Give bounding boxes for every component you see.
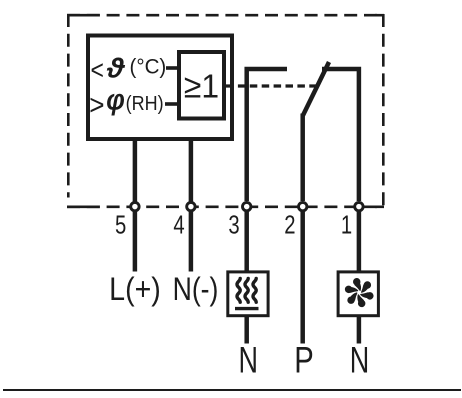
fan M1 box — [338, 272, 378, 316]
wire terminal 3 up to fixed contact — [247, 69, 287, 201]
terminal 3 — [243, 202, 251, 210]
heater wavy element 3 — [253, 278, 256, 302]
wire terminal 1 up and over to switch contact — [322, 69, 359, 201]
heater base bar — [235, 307, 259, 310]
terminal 2 — [299, 202, 307, 210]
svg-text:ϑ: ϑ — [106, 53, 126, 84]
svg-text:≥1: ≥1 — [184, 67, 219, 105]
svg-text:>: > — [89, 88, 104, 121]
wire below fan — [357, 316, 362, 344]
svg-text:4: 4 — [173, 210, 184, 239]
wire below terminal 1 to fan — [357, 212, 362, 272]
enclosure dashed outline — [67, 14, 384, 207]
svg-text:(°C): (°C) — [130, 55, 167, 78]
svg-text:3: 3 — [228, 210, 239, 239]
svg-text:5: 5 — [115, 210, 126, 239]
switch lever (relay contact) — [303, 62, 329, 116]
wire from device box to terminal 4 — [189, 141, 194, 202]
wire from device box to terminal 5 — [133, 141, 138, 202]
svg-text:<: < — [91, 55, 104, 85]
wire below terminal 5 — [133, 212, 138, 272]
wire below terminal 4 — [189, 212, 194, 272]
wire terminal 2 up to lever pivot — [300, 114, 305, 202]
wire below terminal 2 — [300, 212, 305, 344]
humidity input label > φ (RH) — [89, 82, 163, 121]
svg-text:(RH): (RH) — [126, 93, 164, 115]
heater wavy element 2 — [245, 278, 248, 302]
terminal 5 — [131, 202, 139, 210]
heater wavy element 1 — [237, 278, 240, 302]
svg-text:2: 2 — [284, 210, 295, 239]
lead humidity to OR gate — [165, 102, 180, 106]
svg-text:φ: φ — [106, 82, 125, 116]
temperature input label < ϑ (°C) — [91, 53, 167, 85]
svg-text:N: N — [350, 338, 369, 380]
device box — [88, 36, 232, 140]
lead temperature to OR gate — [166, 66, 180, 70]
wire below terminal 3 to heater — [244, 212, 249, 272]
svg-text:1: 1 — [341, 210, 352, 239]
fan impeller — [341, 275, 377, 311]
svg-text:N: N — [239, 338, 258, 380]
terminal 4 — [187, 202, 195, 210]
bottom rule — [3, 389, 461, 391]
svg-text:L(+): L(+) — [109, 271, 161, 307]
dashed control link from OR gate to switch — [226, 84, 317, 87]
svg-text:P: P — [294, 340, 314, 381]
terminal 1 — [355, 202, 363, 210]
OR gate U1 (≥1) — [179, 52, 224, 119]
heater E1 box — [228, 272, 268, 316]
svg-text:N(-): N(-) — [173, 272, 219, 308]
wire below heater — [244, 316, 249, 344]
